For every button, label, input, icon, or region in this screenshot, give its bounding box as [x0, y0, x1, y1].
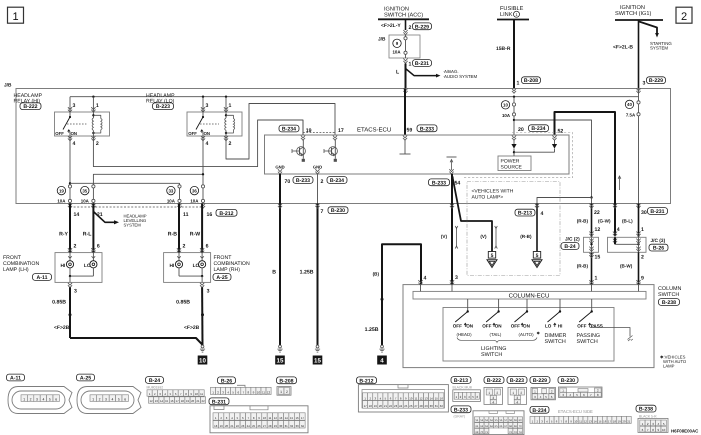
- svg-text:1: 1: [488, 391, 490, 395]
- svg-text:17: 17: [176, 399, 180, 403]
- svg-text:R-W: R-W: [190, 232, 200, 238]
- svg-text:19: 19: [220, 424, 224, 428]
- svg-text:5: 5: [118, 397, 120, 401]
- svg-text:40: 40: [627, 102, 632, 107]
- svg-text:OFF: OFF: [55, 131, 64, 136]
- svg-text:<F>2L-B: <F>2L-B: [613, 44, 633, 50]
- svg-text:2: 2: [183, 243, 186, 249]
- svg-text:H6F08E00AC: H6F08E00AC: [671, 428, 699, 433]
- svg-text:SWITCH: SWITCH: [577, 339, 598, 345]
- svg-text:4: 4: [492, 400, 494, 404]
- svg-text:(B): (B): [373, 272, 380, 277]
- svg-text:23: 23: [394, 404, 398, 408]
- svg-text:B-233: B-233: [420, 126, 434, 132]
- svg-text:18: 18: [181, 399, 185, 403]
- svg-text:<VEHICLES WITH: <VEHICLES WITH: [472, 188, 514, 194]
- svg-text:1: 1: [96, 103, 99, 109]
- svg-text:1.25B: 1.25B: [365, 327, 379, 333]
- svg-text:23: 23: [241, 424, 245, 428]
- svg-text:HI: HI: [61, 263, 66, 269]
- svg-text:5: 5: [49, 397, 51, 401]
- svg-text:2: 2: [641, 254, 644, 260]
- svg-text:B-234: B-234: [531, 126, 545, 132]
- svg-text:10A: 10A: [502, 113, 511, 118]
- svg-text:12: 12: [595, 227, 601, 233]
- svg-text:MU801992: MU801992: [147, 385, 164, 389]
- svg-text:19: 19: [59, 188, 64, 193]
- svg-text:B-234: B-234: [532, 408, 546, 414]
- svg-text:HI: HI: [558, 324, 563, 329]
- svg-text:19: 19: [306, 128, 312, 134]
- svg-text:19: 19: [186, 399, 190, 403]
- svg-text:21: 21: [196, 399, 200, 403]
- svg-text:B-230: B-230: [331, 208, 345, 214]
- svg-text:14: 14: [430, 396, 434, 400]
- svg-text:16: 16: [603, 419, 607, 423]
- svg-text:3: 3: [74, 289, 77, 295]
- svg-text:20: 20: [379, 404, 383, 408]
- svg-text:B-231: B-231: [212, 399, 226, 405]
- svg-text:15: 15: [290, 416, 294, 420]
- svg-text:20: 20: [225, 424, 229, 428]
- svg-text:B-208: B-208: [279, 378, 293, 384]
- svg-text:J/B: J/B: [4, 83, 12, 89]
- svg-text:ON: ON: [204, 131, 210, 136]
- svg-text:4: 4: [541, 211, 544, 217]
- svg-text:30: 30: [641, 210, 647, 216]
- svg-text:15: 15: [595, 254, 601, 260]
- svg-text:3: 3: [36, 397, 38, 401]
- svg-text:4: 4: [424, 276, 427, 282]
- svg-text:2: 2: [229, 141, 232, 147]
- svg-text:(R-B): (R-B): [577, 263, 589, 268]
- svg-text:SWITCH: SWITCH: [481, 352, 502, 358]
- svg-text:13: 13: [589, 419, 593, 423]
- svg-text:(B-W): (B-W): [620, 263, 633, 268]
- svg-text:1: 1: [409, 62, 412, 68]
- svg-text:28: 28: [268, 424, 272, 428]
- svg-text:3: 3: [516, 396, 518, 400]
- svg-text:A-11: A-11: [10, 376, 21, 382]
- svg-text:11: 11: [200, 392, 203, 396]
- svg-text:4: 4: [42, 397, 44, 401]
- svg-text:B-24: B-24: [564, 244, 575, 250]
- svg-text:B-213: B-213: [518, 211, 532, 217]
- svg-text:B-234: B-234: [282, 127, 296, 133]
- svg-text:(R-B): (R-B): [577, 218, 589, 223]
- svg-text:SWITCH: SWITCH: [545, 339, 566, 345]
- svg-text:11: 11: [183, 212, 189, 218]
- svg-text:ON: ON: [523, 324, 531, 329]
- svg-text:J/C (3): J/C (3): [651, 238, 666, 244]
- svg-text:10: 10: [503, 103, 508, 108]
- svg-text:LAMP: LAMP: [663, 364, 675, 369]
- svg-text:7.5A: 7.5A: [626, 113, 636, 118]
- svg-text:COLUMN-ECU: COLUMN-ECU: [509, 292, 550, 299]
- svg-text:(GRAY): (GRAY): [454, 414, 466, 418]
- svg-text:B-222: B-222: [487, 378, 501, 384]
- svg-text:3: 3: [455, 275, 458, 281]
- svg-text:18: 18: [214, 424, 218, 428]
- svg-text:SWITCH (ACC): SWITCH (ACC): [384, 11, 423, 18]
- svg-text:B-212: B-212: [359, 378, 373, 384]
- svg-text:R-B: R-B: [168, 232, 177, 238]
- svg-text:10: 10: [409, 396, 413, 400]
- svg-text:B-233: B-233: [432, 180, 446, 186]
- svg-text:1: 1: [595, 275, 598, 281]
- svg-text:26: 26: [258, 424, 262, 428]
- svg-text:54: 54: [455, 180, 461, 186]
- svg-text:10A: 10A: [167, 199, 176, 204]
- svg-text:(AUTO): (AUTO): [519, 332, 535, 337]
- svg-text:0.85B: 0.85B: [52, 299, 66, 305]
- svg-text:25: 25: [404, 404, 408, 408]
- svg-text:6: 6: [97, 243, 100, 249]
- svg-text:3: 3: [492, 396, 494, 400]
- svg-text:35: 35: [82, 188, 87, 193]
- svg-text:22: 22: [594, 210, 600, 216]
- svg-text:1: 1: [280, 390, 282, 394]
- svg-text:15B-R: 15B-R: [496, 46, 511, 52]
- svg-text:12: 12: [419, 396, 423, 400]
- svg-text:OFF: OFF: [188, 131, 197, 136]
- svg-text:(HEAD): (HEAD): [457, 332, 473, 337]
- svg-text:10: 10: [574, 419, 578, 423]
- svg-text:12: 12: [584, 419, 588, 423]
- svg-text:A-25: A-25: [216, 275, 227, 281]
- svg-text:1: 1: [517, 80, 520, 86]
- svg-text:10: 10: [263, 416, 267, 420]
- svg-text:24: 24: [247, 424, 251, 428]
- svg-text:A-25: A-25: [80, 376, 91, 382]
- svg-text:POWER: POWER: [501, 158, 520, 164]
- svg-text:B-26: B-26: [653, 246, 664, 252]
- svg-text:1: 1: [12, 11, 18, 23]
- svg-text:13: 13: [155, 399, 159, 403]
- svg-text:33: 33: [295, 424, 299, 428]
- svg-text:13: 13: [279, 416, 283, 420]
- svg-text:28: 28: [419, 404, 423, 408]
- svg-text:(G-W): (G-W): [598, 218, 611, 223]
- svg-text:SWITCH: SWITCH: [658, 292, 679, 298]
- svg-text:34: 34: [301, 424, 305, 428]
- svg-text:OFF: OFF: [482, 324, 491, 329]
- svg-text:14: 14: [285, 416, 289, 420]
- svg-text:9: 9: [641, 275, 644, 281]
- svg-text:15: 15: [165, 399, 169, 403]
- svg-text:B-229: B-229: [649, 78, 663, 84]
- svg-text:B-223: B-223: [510, 378, 524, 384]
- svg-text:·AUDIO SYSTEM: ·AUDIO SYSTEM: [443, 74, 478, 79]
- svg-text:BLACK 5-R: BLACK 5-R: [639, 414, 657, 418]
- svg-text:24: 24: [399, 404, 403, 408]
- svg-text:4: 4: [380, 357, 384, 364]
- svg-text:OFF: OFF: [453, 324, 462, 329]
- svg-text:17: 17: [364, 404, 368, 408]
- svg-text:B-208: B-208: [524, 78, 538, 84]
- svg-text:2: 2: [96, 141, 99, 147]
- svg-text:14: 14: [594, 419, 598, 423]
- svg-text:GND: GND: [313, 164, 322, 169]
- svg-text:4: 4: [73, 141, 76, 147]
- svg-text:<F>2B: <F>2B: [54, 325, 70, 331]
- svg-text:25: 25: [252, 424, 256, 428]
- svg-text:PASS: PASS: [591, 324, 603, 329]
- svg-text:3: 3: [105, 397, 107, 401]
- svg-text:20: 20: [191, 399, 195, 403]
- svg-text:27: 27: [263, 424, 267, 428]
- svg-text:13: 13: [425, 396, 429, 400]
- svg-text:B: B: [272, 270, 276, 276]
- svg-text:LO: LO: [545, 324, 552, 329]
- svg-text:18: 18: [613, 419, 617, 423]
- svg-text:2: 2: [99, 397, 101, 401]
- svg-text:12: 12: [150, 399, 154, 403]
- svg-text:1: 1: [23, 397, 25, 401]
- svg-text:11: 11: [579, 419, 582, 423]
- svg-text:LAMP (RH): LAMP (RH): [214, 267, 241, 273]
- svg-text:11: 11: [262, 391, 265, 395]
- svg-text:B-222: B-222: [23, 104, 37, 110]
- svg-text:0.85B: 0.85B: [176, 299, 190, 305]
- svg-text:2: 2: [286, 390, 288, 394]
- svg-text:27: 27: [414, 404, 418, 408]
- svg-text:22: 22: [202, 399, 206, 403]
- svg-text:ON: ON: [71, 131, 77, 136]
- svg-text:2: 2: [520, 391, 522, 395]
- svg-text:B-26: B-26: [221, 378, 232, 384]
- svg-text:B-233: B-233: [454, 407, 468, 413]
- svg-text:2: 2: [321, 179, 324, 185]
- svg-text:B-213: B-213: [454, 378, 468, 384]
- svg-text:10: 10: [195, 392, 199, 396]
- svg-text:18: 18: [369, 404, 373, 408]
- svg-text:SOURCE: SOURCE: [501, 165, 523, 171]
- svg-text:(R-B): (R-B): [520, 234, 532, 239]
- svg-text:2: 2: [409, 25, 412, 31]
- svg-text:21: 21: [627, 419, 631, 423]
- svg-text:5: 5: [491, 253, 494, 259]
- svg-text:7: 7: [321, 209, 324, 215]
- svg-text:10A: 10A: [57, 199, 66, 204]
- svg-text:4: 4: [206, 141, 209, 147]
- svg-text:5: 5: [536, 253, 539, 259]
- svg-text:30: 30: [430, 404, 434, 408]
- svg-text:4: 4: [516, 400, 518, 404]
- svg-text:4: 4: [111, 397, 113, 401]
- svg-text:3: 3: [643, 80, 646, 86]
- svg-text:10: 10: [662, 428, 666, 432]
- svg-text:ETACS-ECU SIDE: ETACS-ECU SIDE: [558, 409, 593, 414]
- svg-text:4: 4: [617, 227, 620, 233]
- svg-text:15: 15: [598, 419, 602, 423]
- svg-text:LO: LO: [84, 263, 91, 269]
- svg-text:2: 2: [74, 243, 77, 249]
- svg-text:B-229: B-229: [533, 378, 547, 384]
- svg-text:22: 22: [236, 424, 240, 428]
- svg-text:LINK: LINK: [500, 12, 513, 18]
- svg-text:6: 6: [124, 397, 126, 401]
- svg-text:B-238: B-238: [662, 300, 676, 306]
- svg-text:10: 10: [199, 357, 206, 364]
- svg-text:21: 21: [384, 404, 388, 408]
- svg-text:OFF: OFF: [511, 324, 520, 329]
- svg-text:22: 22: [389, 404, 393, 408]
- svg-text:29: 29: [425, 404, 429, 408]
- svg-text:1: 1: [229, 103, 232, 109]
- svg-text:11: 11: [268, 416, 271, 420]
- svg-text:32: 32: [440, 404, 444, 408]
- svg-text:17: 17: [338, 128, 344, 134]
- svg-text:20: 20: [622, 419, 626, 423]
- svg-text:3: 3: [206, 103, 209, 109]
- svg-text:(TAIL): (TAIL): [490, 332, 502, 337]
- svg-text:2: 2: [496, 391, 498, 395]
- svg-text:B-24: B-24: [149, 378, 160, 384]
- svg-text:2: 2: [681, 11, 687, 23]
- svg-text:21: 21: [230, 424, 234, 428]
- svg-text:(B-L): (B-L): [622, 218, 633, 223]
- svg-text:HI: HI: [170, 263, 175, 269]
- svg-text:11: 11: [414, 396, 417, 400]
- svg-text:(V): (V): [441, 234, 448, 239]
- svg-text:SYSTEM: SYSTEM: [124, 223, 142, 228]
- svg-text:B-230: B-230: [561, 378, 575, 384]
- svg-text:30: 30: [279, 424, 283, 428]
- svg-text:B-229: B-229: [415, 24, 429, 30]
- svg-text:J/C (2): J/C (2): [565, 237, 580, 243]
- svg-text:B-231: B-231: [650, 209, 664, 215]
- svg-text:ETACS-ECU: ETACS-ECU: [357, 127, 391, 134]
- svg-text:29: 29: [274, 424, 278, 428]
- svg-text:OFF: OFF: [577, 324, 586, 329]
- svg-text:14: 14: [74, 212, 80, 218]
- svg-text:16: 16: [170, 399, 174, 403]
- svg-text:59: 59: [407, 128, 413, 134]
- svg-text:31: 31: [285, 424, 289, 428]
- svg-text:15: 15: [277, 357, 284, 364]
- svg-text:3: 3: [207, 289, 210, 295]
- svg-text:J/B: J/B: [378, 36, 386, 42]
- svg-text:3: 3: [73, 103, 76, 109]
- svg-text:1: 1: [512, 391, 514, 395]
- svg-text:10A: 10A: [190, 199, 199, 204]
- svg-text:GND: GND: [275, 164, 284, 169]
- svg-text:B-238: B-238: [639, 407, 653, 413]
- svg-text:16: 16: [207, 212, 213, 218]
- svg-text:LO: LO: [193, 263, 200, 269]
- svg-text:B-212: B-212: [219, 211, 233, 217]
- svg-text:36: 36: [192, 188, 197, 193]
- svg-text:15: 15: [435, 396, 439, 400]
- svg-text:10: 10: [257, 391, 261, 395]
- svg-text:A-11: A-11: [37, 275, 48, 281]
- svg-text:20: 20: [518, 127, 524, 133]
- svg-text:1.25B: 1.25B: [300, 270, 314, 276]
- svg-text:52: 52: [558, 128, 564, 134]
- svg-text:10A: 10A: [392, 49, 401, 54]
- svg-text:BLACK MU8: BLACK MU8: [453, 386, 472, 390]
- svg-text:LAMP (LH): LAMP (LH): [3, 267, 29, 273]
- svg-text:32: 32: [290, 424, 294, 428]
- svg-text:15: 15: [314, 357, 321, 364]
- svg-text:SYSTEM: SYSTEM: [650, 46, 668, 51]
- svg-text:ON: ON: [466, 324, 474, 329]
- svg-text:R-Y: R-Y: [59, 232, 68, 238]
- svg-text:AUTO LAMP>: AUTO LAMP>: [472, 195, 504, 201]
- svg-text:1: 1: [641, 227, 644, 233]
- svg-text:31: 31: [435, 404, 439, 408]
- svg-text:12: 12: [267, 391, 271, 395]
- svg-text:19: 19: [374, 404, 378, 408]
- svg-text:(V): (V): [480, 234, 487, 239]
- svg-text:B-223: B-223: [156, 104, 170, 110]
- svg-text:26: 26: [409, 404, 413, 408]
- svg-text:2: 2: [30, 397, 32, 401]
- svg-text:B-234: B-234: [330, 178, 344, 184]
- svg-text:14: 14: [160, 399, 164, 403]
- svg-text:10A: 10A: [81, 199, 90, 204]
- svg-text:12: 12: [274, 416, 278, 420]
- svg-text:16: 16: [440, 396, 444, 400]
- svg-text:B-231: B-231: [415, 61, 429, 67]
- svg-text:17: 17: [608, 419, 612, 423]
- svg-text:70: 70: [285, 179, 291, 185]
- svg-text:<F>2B: <F>2B: [184, 325, 200, 331]
- svg-text:17: 17: [301, 416, 305, 420]
- svg-text:1: 1: [92, 397, 94, 401]
- svg-text:<F>2L-Y: <F>2L-Y: [381, 23, 401, 29]
- svg-text:R-L: R-L: [83, 232, 92, 238]
- svg-text:33: 33: [168, 188, 173, 193]
- svg-text:19: 19: [618, 419, 622, 423]
- svg-text:16: 16: [295, 416, 299, 420]
- svg-text:6: 6: [55, 397, 57, 401]
- svg-text:ON: ON: [495, 324, 503, 329]
- svg-text:6: 6: [206, 243, 209, 249]
- svg-text:SWITCH (IG1): SWITCH (IG1): [615, 10, 651, 17]
- svg-text:B-233: B-233: [296, 178, 310, 184]
